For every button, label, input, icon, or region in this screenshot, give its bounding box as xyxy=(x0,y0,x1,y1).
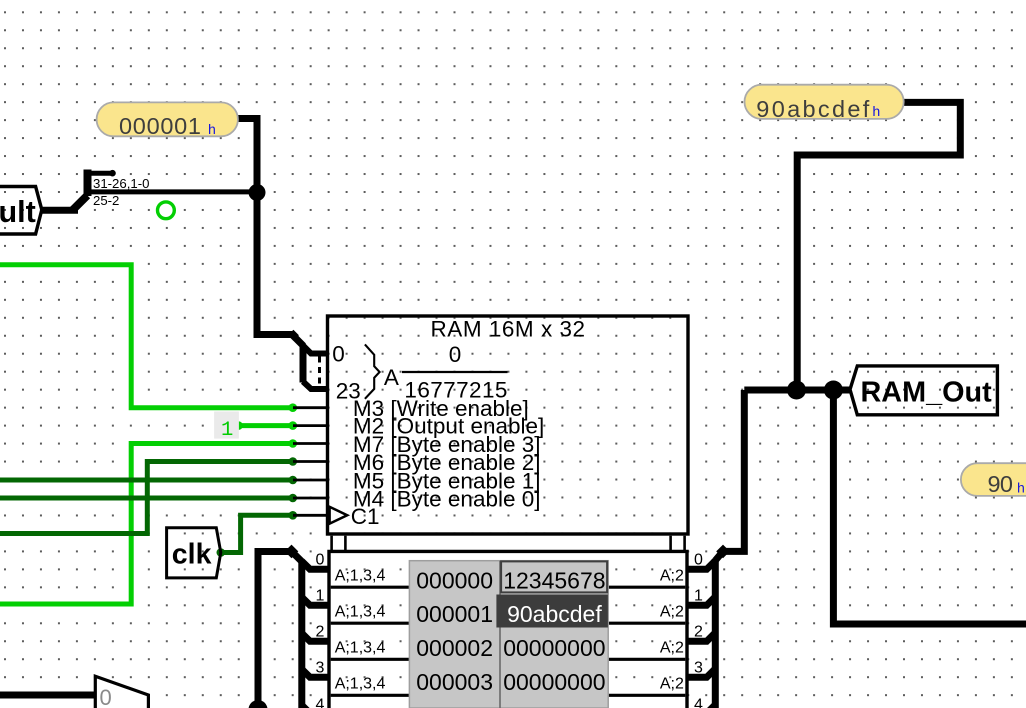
svg-text:2: 2 xyxy=(316,624,325,641)
svg-text:0: 0 xyxy=(100,685,112,708)
svg-text:0: 0 xyxy=(316,552,325,569)
wire: RAM data out to RAM_Out tunnel xyxy=(744,387,850,394)
svg-text:1: 1 xyxy=(316,588,325,605)
svg-text:A;1,3,4: A;1,3,4 xyxy=(335,603,386,620)
svg-text:1: 1 xyxy=(221,419,233,442)
row separators xyxy=(331,587,686,695)
svg-text:90: 90 xyxy=(988,471,1014,497)
wire: black bus left of memory table xyxy=(258,552,292,708)
svg-text:12345678: 12345678 xyxy=(503,567,605,593)
svg-text:90abcdef: 90abcdef xyxy=(507,601,602,627)
wire: black bus down right side of memory table xyxy=(723,390,744,551)
tunnel clk xyxy=(167,528,221,578)
memory table left fan wedges rows 0-4 xyxy=(302,561,329,708)
wire: black bus to bottom right output xyxy=(833,390,1026,624)
svg-text:0: 0 xyxy=(694,552,703,569)
svg-text:000000: 000000 xyxy=(416,567,493,593)
wire: bright green stub to RAM pin M2 xyxy=(239,423,293,428)
probe value label 000001h xyxy=(97,102,238,136)
svg-text:A;2: A;2 xyxy=(660,603,684,620)
wire: dark green net to RAM pin M4 xyxy=(0,496,293,501)
input pin 0 (bottom left, clipped) xyxy=(95,676,148,708)
node: bus corner diamond right xyxy=(716,545,730,559)
wire: black bus from 90abcdefh label down to RAM_Out node xyxy=(797,102,960,390)
probe value label 90abcdefh xyxy=(745,85,904,119)
svg-text:RAM_Out: RAM_Out xyxy=(861,376,993,408)
svg-text:clk: clk xyxy=(172,538,212,570)
wire: dark green clk net to RAM pin C1 xyxy=(221,515,293,552)
svg-text:0: 0 xyxy=(332,342,345,367)
node: bus corner diamond xyxy=(288,330,299,341)
green wire-end dots xyxy=(289,403,298,412)
memory table right fan wedges rows 0-4 xyxy=(687,561,715,708)
row index numbers left xyxy=(316,552,325,708)
wire: bright green net B (RAM pin M7 loop to left edge) xyxy=(0,444,293,605)
svg-text:A: A xyxy=(384,365,399,390)
svg-text:31-26,1-0: 31-26,1-0 xyxy=(93,176,149,191)
black pin stubs of RAM left edge xyxy=(293,408,328,516)
svg-text:M4 [Byte enable 0]: M4 [Byte enable 0] xyxy=(353,487,541,512)
svg-text:3: 3 xyxy=(316,660,325,677)
svg-text:00000000: 00000000 xyxy=(503,635,605,661)
wire: dark green net to RAM pin M6 xyxy=(0,462,293,534)
tunnel Result (partially visible) xyxy=(0,187,42,235)
memory data xyxy=(503,567,605,695)
svg-text:00000000: 00000000 xyxy=(503,669,605,695)
constant value 1 label xyxy=(214,412,239,439)
node: wire-end dot at label xyxy=(900,99,906,105)
svg-text:000001: 000001 xyxy=(119,113,201,139)
highlighted cell 90abcdef xyxy=(496,595,608,628)
memory contents table box xyxy=(329,551,687,708)
svg-text:90abcdef: 90abcdef xyxy=(756,96,869,122)
svg-text:000001: 000001 xyxy=(416,601,493,627)
node: junction dot splitter/bus xyxy=(249,184,266,201)
node: junction dot xyxy=(787,381,806,400)
cursor cell outline row 0 xyxy=(501,561,607,592)
A port brace xyxy=(365,344,380,398)
svg-text:2: 2 xyxy=(694,624,703,641)
svg-text:1: 1 xyxy=(694,588,703,605)
svg-text:ult: ult xyxy=(0,195,36,229)
svg-text:000002: 000002 xyxy=(416,635,493,661)
svg-text:A;1,3,4: A;1,3,4 xyxy=(335,639,386,656)
tunnel RAM_Out xyxy=(850,366,997,415)
port labels A;1,3,4 xyxy=(335,567,386,692)
svg-text:h: h xyxy=(872,105,880,121)
wire: dark green net to RAM pin M5 xyxy=(0,478,293,483)
svg-text:A;2: A;2 xyxy=(660,639,684,656)
row index numbers right xyxy=(694,552,703,708)
node: junction dot bottom xyxy=(249,700,268,708)
dashed bit-range line of A port xyxy=(318,357,321,387)
svg-text:3: 3 xyxy=(694,660,703,677)
node: wire-end dot at label xyxy=(235,115,241,121)
port labels A;2 xyxy=(660,567,684,692)
node: unconnected splitter branch end xyxy=(109,170,116,177)
svg-text:25-2: 25-2 xyxy=(93,193,119,208)
svg-text:A;1,3,4: A;1,3,4 xyxy=(335,675,386,692)
memory addresses xyxy=(416,567,493,695)
gray contents columns xyxy=(409,561,608,708)
wire: black to input pin bottom left xyxy=(0,692,96,699)
wire: bright green net A (to RAM pin M3) xyxy=(0,265,293,408)
svg-text:A;2: A;2 xyxy=(660,675,684,692)
svg-text:A;2: A;2 xyxy=(660,567,684,584)
svg-text:4: 4 xyxy=(694,697,703,708)
node: junction dot xyxy=(824,381,843,400)
svg-text:0: 0 xyxy=(449,342,462,367)
svg-text:h: h xyxy=(208,123,216,139)
node: bus corner diamond left xyxy=(285,545,299,559)
svg-text:RAM 16M x 32: RAM 16M x 32 xyxy=(431,316,586,341)
svg-text:h: h xyxy=(1017,482,1025,498)
clock input C1 triangle xyxy=(330,507,348,524)
svg-text:4: 4 xyxy=(316,697,325,708)
svg-text:C1: C1 xyxy=(351,504,380,529)
legs joining RAM body and memory table xyxy=(332,536,685,552)
svg-text:A;1,3,4: A;1,3,4 xyxy=(335,567,386,584)
RAM U1 main body xyxy=(328,316,689,534)
probe value label 90h (clipped at right edge) xyxy=(961,463,1026,496)
svg-text:000003: 000003 xyxy=(416,669,493,695)
bus entry wedge into RAM A pins xyxy=(292,335,304,347)
wire: black bus from probe label 000001h down to RAM A xyxy=(238,119,292,335)
splitter SP1 from Result tunnel xyxy=(42,170,258,211)
green probe ring xyxy=(158,202,175,219)
